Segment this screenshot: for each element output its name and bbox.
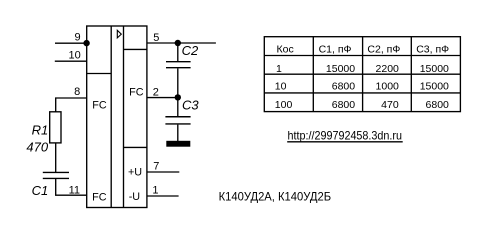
- wire pin 2: [147, 97, 178, 99]
- svg-text:С2, пФ: С2, пФ: [367, 44, 400, 56]
- svg-text:FC: FC: [92, 191, 107, 203]
- amplifier triangle symbol: [117, 30, 121, 38]
- svg-text:C2: C2: [182, 43, 199, 58]
- junction dot pin 9: [83, 40, 89, 46]
- wire R1 to C1: [55, 143, 57, 173]
- wire pin 7: [147, 171, 179, 173]
- svg-text:15000: 15000: [420, 63, 449, 75]
- svg-text:11: 11: [69, 184, 80, 196]
- table row Koc=1: [276, 63, 449, 75]
- svg-text:6800: 6800: [332, 81, 356, 93]
- wire node to C2: [177, 43, 179, 62]
- svg-text:7: 7: [153, 160, 159, 172]
- capacitor C3: [165, 117, 190, 124]
- svg-text:9: 9: [74, 32, 80, 44]
- wire pin 1: [147, 195, 179, 197]
- svg-text:470: 470: [381, 99, 399, 111]
- svg-text:http://299792458.3dn.ru: http://299792458.3dn.ru: [288, 128, 403, 142]
- svg-text:С3, пФ: С3, пФ: [416, 44, 449, 56]
- svg-text:R1: R1: [32, 123, 49, 138]
- wire pin 10: [55, 60, 87, 62]
- table header row: [277, 44, 450, 56]
- svg-text:15000: 15000: [420, 81, 449, 93]
- svg-text:6800: 6800: [426, 99, 450, 111]
- svg-text:FC: FC: [129, 86, 144, 98]
- capacitor C2: [166, 62, 191, 68]
- capacitor C1: [43, 172, 69, 178]
- wire node to C3: [177, 97, 179, 116]
- svg-text:К140УД2А, К140УД2Б: К140УД2А, К140УД2Б: [219, 190, 332, 204]
- svg-text:470: 470: [26, 140, 48, 155]
- ground: [166, 141, 190, 147]
- table of correction capacitor values: [264, 37, 460, 112]
- wire C1 to pin 11: [56, 179, 87, 195]
- op-amp DA1 K140UD2 outline: [87, 26, 147, 208]
- svg-text:1: 1: [276, 63, 282, 75]
- svg-text:8: 8: [74, 86, 80, 98]
- svg-text:5: 5: [153, 32, 159, 44]
- svg-text:+U: +U: [128, 167, 142, 179]
- wire C3 to ground: [177, 125, 179, 141]
- svg-text:FC: FC: [92, 100, 107, 112]
- junction node pin 5 / C2: [175, 40, 181, 46]
- wire C2 to node 2: [177, 68, 179, 97]
- table row Koc=100: [275, 99, 449, 111]
- wire pin 9: [55, 42, 87, 44]
- svg-text:100: 100: [275, 99, 293, 111]
- wire pin 5: [147, 42, 216, 44]
- wire pin 8: [56, 98, 87, 112]
- table row Koc=10: [275, 81, 449, 93]
- svg-text:1000: 1000: [376, 81, 400, 93]
- svg-text:1: 1: [152, 184, 158, 196]
- svg-text:-U: -U: [129, 191, 140, 203]
- svg-text:6800: 6800: [332, 99, 356, 111]
- svg-text:С1, пФ: С1, пФ: [319, 44, 352, 56]
- svg-text:2: 2: [153, 86, 159, 98]
- resistor R1: [50, 112, 61, 143]
- site url annotation: [287, 128, 403, 142]
- svg-text:10: 10: [69, 50, 81, 62]
- junction node pin 2 / C3: [175, 94, 181, 100]
- svg-text:Кос: Кос: [277, 44, 294, 56]
- svg-text:C1: C1: [32, 183, 49, 198]
- svg-text:C3: C3: [182, 97, 199, 112]
- svg-text:2200: 2200: [376, 63, 400, 75]
- svg-text:15000: 15000: [326, 63, 355, 75]
- svg-text:10: 10: [275, 81, 287, 93]
